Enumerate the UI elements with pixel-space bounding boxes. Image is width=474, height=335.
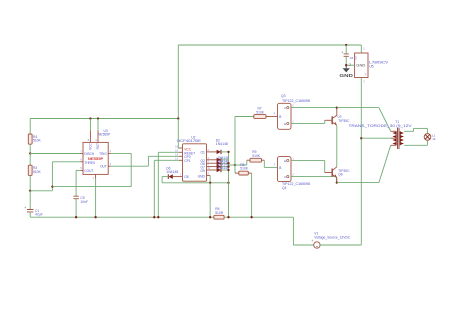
svg-text:Q6: Q6: [338, 173, 343, 177]
svg-text:O1: O1: [200, 150, 205, 154]
wire R4 to node: [29, 144, 31, 153]
svg-text:C6: C6: [350, 56, 354, 60]
svg-text:3: 3: [110, 162, 112, 166]
node rail drop junction: [177, 117, 179, 119]
node diode-bus bottom junction: [227, 182, 229, 184]
node rail-VCC junction U3 pin8: [89, 117, 91, 119]
svg-text:HCF4017BE: HCF4017BE: [177, 139, 202, 143]
wire R8 right to ground rail: [248, 173, 251, 217]
transistor Q5 TIP35C: [332, 108, 337, 126]
svg-text:TRIG: TRIG: [99, 152, 107, 156]
svg-text:1: 1: [292, 119, 294, 123]
label V1: [314, 232, 351, 240]
wire DISCH net: [30, 149, 83, 153]
svg-text:TIP35C: TIP35C: [338, 119, 350, 123]
svg-text:+: +: [311, 239, 313, 243]
svg-text:+: +: [24, 206, 26, 210]
svg-text:510R: 510R: [215, 211, 224, 215]
diode 1N4148 row1: [207, 148, 229, 154]
svg-text:5: 5: [80, 166, 82, 170]
svg-text:1: 1: [363, 47, 365, 51]
svg-text:1: 1: [180, 173, 182, 177]
capacitor C1 47uF: [24, 206, 42, 216]
diode 1N4148 row4: [207, 163, 229, 169]
wire Q4 collector: [291, 177, 336, 183]
svg-text:2: 2: [208, 148, 210, 152]
node rail junctions: [75, 216, 253, 218]
wire U2 CP1 to ground rail: [154, 160, 179, 217]
node rail-RST junction U3 pin4: [97, 117, 99, 119]
svg-text:VI: VI: [364, 73, 368, 76]
node regulator-output junction: [345, 44, 347, 46]
svg-text:510K: 510K: [256, 110, 265, 114]
wire U2 RESET to ground rail: [158, 152, 179, 217]
resistor R7 510K: [235, 107, 266, 119]
svg-text:+: +: [341, 50, 343, 54]
label Q3: [281, 94, 310, 103]
label Q4: [282, 182, 310, 190]
wire U2 GND pin8: [207, 171, 211, 182]
label Q6: [338, 169, 350, 177]
wire U3 GND pin1: [92, 174, 95, 217]
svg-text:Q3: Q3: [281, 94, 286, 98]
wire COUT to C5: [76, 166, 83, 196]
wire R9 right to Q4 base: [262, 160, 278, 167]
diode 1N4148 row2: [207, 156, 229, 162]
svg-text:U5: U5: [369, 65, 373, 69]
svg-text:TRANS_TORODE_30 (9_12V: TRANS_TORODE_30 (9_12V: [349, 124, 413, 128]
wire regulator GND pin: [346, 64, 354, 66]
wire U2 GND drop to rail: [209, 183, 211, 217]
svg-text:1N4148: 1N4148: [216, 142, 228, 146]
diode 1N4148 row5: [207, 166, 229, 172]
svg-text:DISCH: DISCH: [84, 152, 95, 156]
svg-text:2: 2: [110, 149, 112, 153]
ground symbol GND: [339, 65, 353, 78]
labels 1N4148 stack: [217, 156, 229, 170]
svg-text:O5: O5: [184, 175, 189, 179]
label U2: [177, 136, 202, 143]
svg-text:4: 4: [208, 156, 210, 160]
svg-text:VCC: VCC: [89, 142, 93, 149]
svg-text:7: 7: [80, 149, 82, 153]
svg-text:TIP122_C165098: TIP122_C165098: [282, 99, 310, 103]
resistor R8 510K: [239, 163, 249, 175]
wire U2 VCC from rail: [177, 119, 180, 149]
svg-text:8: 8: [208, 171, 210, 175]
svg-text:10nF: 10nF: [80, 200, 88, 204]
wire R7 to Q3 base: [266, 111, 278, 117]
svg-text:1: 1: [92, 176, 94, 180]
wire C5 bottom: [75, 199, 77, 218]
svg-text:510K: 510K: [240, 167, 249, 171]
transistor Q4 TIP122 body: [278, 156, 295, 181]
wire C1 bottom: [29, 212, 31, 217]
wire ground rail left: [30, 216, 214, 218]
lamp L1: [424, 134, 436, 142]
svg-text:E: E: [284, 122, 286, 126]
wire ground rail right: [224, 217, 314, 245]
wire secondary bottom to lamp: [404, 141, 427, 146]
svg-text:1N4148: 1N4148: [166, 170, 178, 174]
svg-text:THRES: THRES: [84, 161, 95, 165]
wire Q5 emitter to Q6 collector: [336, 125, 338, 167]
svg-text:1k: 1k: [432, 137, 436, 141]
U3 pin labels: [84, 142, 107, 172]
transformer T1 TRANS_TORODE: [391, 128, 404, 149]
node THRES junction: [29, 190, 31, 192]
node R-bus junction: [234, 164, 236, 166]
wire bus link to R-bus: [229, 164, 236, 166]
wire top-rail left drop: [177, 45, 179, 119]
svg-text:8: 8: [88, 138, 90, 142]
svg-text:Voltage_Source_12VDC: Voltage_Source_12VDC: [314, 236, 351, 240]
U2 right pin labels: [198, 150, 206, 178]
wire regulator input (to 12V line): [360, 78, 362, 246]
wire U3 VCC stub pin8: [88, 119, 91, 143]
svg-text:CP1: CP1: [184, 159, 191, 163]
node Q3C/Q5C junction: [336, 106, 338, 108]
capacitor C6 (regulator bypass): [341, 45, 353, 65]
label Q5: [338, 115, 351, 123]
svg-text:3: 3: [363, 80, 365, 84]
wire TRIG loop: [52, 149, 131, 186]
wire diode cathode bus: [228, 152, 230, 183]
transistor Q3 TIP122 body: [278, 103, 295, 129]
node R4/R3/DISCH junction: [29, 152, 31, 154]
wire bus down to ground rail: [228, 183, 230, 217]
wire R9 left: [235, 160, 250, 165]
wire Q5C to transformer top: [337, 108, 391, 132]
node 12V center-tap junction: [360, 137, 362, 139]
svg-text:4: 4: [95, 138, 97, 142]
wire regulator output stub: [360, 45, 362, 53]
node regulator GND junction: [345, 64, 347, 66]
wire U3 RST stub pin4: [95, 119, 98, 143]
voltage source V1 12VDC: [311, 239, 320, 248]
node Q6E/Q4C junction: [336, 181, 338, 183]
node THRES/TRIG junction: [51, 185, 53, 187]
label U3: [98, 129, 111, 137]
svg-text:1: 1: [292, 156, 294, 160]
wire Q4 emitter to Q6 base: [291, 160, 332, 172]
U2 pin stubs left: [175, 144, 182, 160]
wire +9V top rail: [178, 44, 361, 46]
wire Q3 collector: [291, 107, 337, 109]
wire THRES loop: [30, 158, 83, 191]
svg-text:O9: O9: [200, 169, 205, 173]
svg-text:GND: GND: [198, 175, 206, 179]
node U2-GND/D6 junction: [209, 182, 211, 184]
wire center tap: [361, 137, 390, 139]
wire R3 to node: [29, 175, 31, 190]
wire D6 cathode loop: [162, 177, 228, 183]
wire secondary top to lamp: [404, 128, 427, 134]
svg-text:GND: GND: [339, 73, 353, 78]
svg-text:VO: VO: [354, 56, 358, 60]
resistor R6 510R: [214, 207, 224, 219]
U2 left pin labels: [184, 148, 195, 180]
diode 1N4148 row3: [207, 159, 229, 165]
resistor R3 510K: [28, 165, 41, 175]
wire Q6E to transformer bottom: [337, 145, 391, 182]
capacitor C5 10nF: [73, 196, 88, 204]
IC U2 HCF4017BE body: [183, 144, 207, 181]
svg-text:510K: 510K: [33, 139, 42, 143]
svg-text:E: E: [284, 159, 286, 163]
resistor R9 510K: [250, 150, 262, 162]
voltage regulator U5 L7809CV: [349, 47, 368, 84]
label U5 L7809CV: [369, 60, 389, 68]
wire C1 top: [29, 191, 31, 210]
svg-text:OUT: OUT: [100, 164, 107, 168]
svg-text:3: 3: [274, 162, 276, 166]
transistor Q6 TIP35C: [332, 167, 337, 183]
svg-text:COUT: COUT: [84, 169, 93, 173]
svg-text:2: 2: [292, 104, 294, 108]
resistor R4 510K: [28, 134, 41, 144]
label D2 1N4148: [216, 138, 228, 146]
svg-text:Q4: Q4: [282, 186, 287, 190]
svg-text:3: 3: [274, 111, 276, 115]
op-amp U3 NE555P body: [83, 142, 108, 174]
svg-text:RST: RST: [96, 143, 100, 149]
svg-text:510K: 510K: [252, 154, 261, 158]
wire left column top: [29, 119, 31, 135]
svg-text:NE555P: NE555P: [98, 132, 111, 136]
svg-text:47µF: 47µF: [35, 213, 43, 217]
diode D6 1N4148: [166, 167, 182, 179]
svg-text:510K: 510K: [33, 170, 42, 174]
wire mid +9V rail: [30, 118, 178, 120]
wire V1 to 12V line: [320, 244, 361, 246]
svg-text:6: 6: [80, 158, 82, 162]
wire R8 left: [235, 172, 239, 174]
wire OUT to CP0: [108, 156, 179, 166]
svg-text:GND: GND: [356, 63, 366, 67]
wire R4-R3 link: [29, 154, 31, 166]
wire Q3 emitter to Q5 base: [291, 120, 332, 123]
label T1: [349, 120, 413, 128]
wire R bus vertical: [234, 117, 236, 174]
svg-text:2: 2: [292, 173, 294, 177]
node bus junctions: [227, 151, 229, 171]
